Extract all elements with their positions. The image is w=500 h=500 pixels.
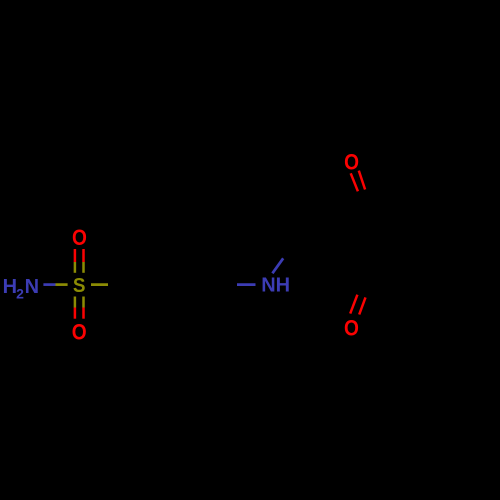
svg-text:H: H	[3, 276, 17, 298]
svg-text:2: 2	[16, 286, 24, 302]
double bond C9=O3 top right (left line)	[351, 173, 358, 191]
double bond S1=O1 upper (right line)	[82, 249, 85, 262]
svg-text:S: S	[73, 274, 86, 297]
svg-text:O: O	[72, 225, 87, 250]
svg-text:NH: NH	[261, 275, 290, 297]
bond N1-S1 (half blue, half olive)	[43, 283, 55, 286]
svg-text:N: N	[25, 276, 39, 298]
svg-text:O: O	[344, 315, 359, 340]
double bond S1=O2 lower (left line)	[74, 297, 77, 308]
double bond S1=O2 lower (right line)	[82, 297, 85, 308]
double bond C13=O4 bottom right (right line)	[359, 297, 365, 314]
bond N2-C7 (nitrogen half, NH up-right to methine)	[272, 258, 283, 273]
double bond S1=O1 upper (left line)	[74, 249, 77, 262]
svg-text:O: O	[344, 149, 359, 174]
double bond C13=O4 bottom right (left line)	[350, 295, 357, 314]
double bond C9=O3 top right (right line)	[359, 171, 365, 190]
bond S1-C1 (sulfur half toward invisible phenyl ring)	[91, 283, 108, 286]
svg-text:O: O	[72, 319, 87, 344]
bond C4-N2 (nitrogen half, phenyl to NH)	[237, 283, 256, 286]
atom label N1 (H2N amine text)	[3, 276, 39, 302]
